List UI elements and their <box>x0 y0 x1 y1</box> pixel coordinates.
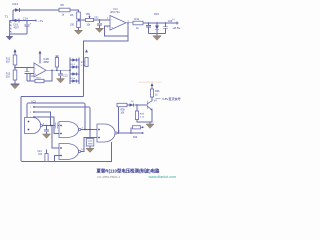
svg-text:C22: C22 <box>63 74 68 77</box>
gate G2 <box>59 122 81 138</box>
svg-text:(+): (+) <box>172 19 175 21</box>
zener D15 <box>155 23 159 34</box>
svg-text:C14: C14 <box>23 16 28 20</box>
wire G3 out up <box>81 138 97 152</box>
resistor R7 <box>77 21 81 28</box>
capacitor C05 <box>146 23 151 34</box>
ground <box>146 122 154 128</box>
svg-text:4007: 4007 <box>14 27 20 30</box>
svg-text:VR1: VR1 <box>86 13 91 16</box>
wire feedback <box>105 23 129 36</box>
svg-text:+8.5v: +8.5v <box>173 26 181 30</box>
label ~7v <box>35 20 37 22</box>
gate G4 <box>97 124 117 142</box>
wire bus E <box>34 117 61 134</box>
op-amp U2 <box>34 63 46 77</box>
wire emitter loop <box>136 104 138 106</box>
resistor R11 <box>133 21 143 25</box>
svg-text:D1.2: D1.2 <box>71 64 76 66</box>
svg-text:4558: 4558 <box>43 61 49 64</box>
wire <box>137 110 152 122</box>
diode D3 <box>70 72 79 75</box>
svg-text:D15: D15 <box>154 12 159 16</box>
svg-text:R20: R20 <box>133 137 138 139</box>
power +V <box>39 51 42 64</box>
wire G1 to G3 lower <box>52 126 61 149</box>
diode D14 <box>15 8 20 12</box>
wire output <box>126 22 133 24</box>
wire <box>70 10 79 12</box>
wire <box>10 33 28 35</box>
diode D01 <box>15 19 20 23</box>
transformer T1 secondary <box>10 21 12 35</box>
svg-text:330: 330 <box>70 24 75 27</box>
wire op1 down <box>84 23 129 97</box>
capacitor C06 <box>163 23 168 34</box>
reference box X1 <box>86 139 94 147</box>
op-amp U1 <box>110 16 126 31</box>
wire base <box>127 104 147 106</box>
wire bus B box edge <box>27 103 87 133</box>
gate G1 <box>25 118 43 134</box>
svg-text:51K: 51K <box>6 61 11 64</box>
capacitor C25 series <box>55 123 61 129</box>
wire <box>12 10 14 21</box>
resistor R58 <box>117 103 127 106</box>
svg-text:IC1: IC1 <box>114 7 119 11</box>
ground <box>75 28 83 35</box>
svg-text:R11: R11 <box>135 17 140 21</box>
ground <box>57 79 65 83</box>
resistor R20 <box>130 127 132 133</box>
wire output <box>46 69 70 71</box>
ground <box>96 28 104 32</box>
power +V <box>85 49 88 52</box>
svg-text:R58: R58 <box>121 110 126 112</box>
wire G4 out <box>117 132 142 134</box>
power +V <box>14 49 17 55</box>
wire <box>149 33 166 35</box>
ground <box>11 80 20 89</box>
svg-text:R5: R5 <box>61 3 65 7</box>
resistor R15 feedback <box>55 56 58 70</box>
resistor R12 <box>13 55 17 65</box>
capacitor C14 <box>25 21 32 35</box>
wire <box>10 20 37 22</box>
svg-text:-: - <box>111 18 112 22</box>
wire bus A <box>21 96 84 98</box>
wire G1 out <box>42 125 55 127</box>
label 3.8V output <box>156 97 161 99</box>
resistor R17 <box>85 58 88 67</box>
capacitor C21 <box>25 68 30 82</box>
capacitor C03 <box>97 20 102 28</box>
svg-text:IC2: IC2 <box>32 100 37 104</box>
ground <box>43 134 51 138</box>
svg-text:51K: 51K <box>6 76 11 79</box>
svg-text:C24: C24 <box>37 151 42 153</box>
svg-text:uPC741: uPC741 <box>110 10 120 14</box>
svg-text:C03: C03 <box>94 16 99 19</box>
svg-text:D14: D14 <box>13 2 19 6</box>
resistor R26 <box>150 89 153 97</box>
wire G2 out <box>81 129 97 131</box>
wire top rail <box>13 9 59 11</box>
svg-text:www.dianlut.com: www.dianlut.com <box>149 175 177 179</box>
resistor R13 <box>13 70 17 80</box>
svg-text:T1: T1 <box>5 15 9 19</box>
diode D4 <box>70 79 79 82</box>
wire <box>143 22 176 24</box>
resistor R6 <box>77 12 81 19</box>
svg-text:夏普R(110型电压检测(削波)电路: 夏普R(110型电压检测(削波)电路 <box>96 167 161 174</box>
wire <box>14 65 16 70</box>
feedback loop R14 <box>27 70 52 82</box>
capacitor C23 <box>44 126 49 135</box>
diode ladder rails <box>70 58 79 85</box>
svg-text:~7v: ~7v <box>38 19 44 23</box>
diode D2 <box>70 65 79 68</box>
ground <box>86 146 94 152</box>
trimmer VR1 <box>86 15 94 21</box>
wire bus C <box>34 107 90 139</box>
wire G3 lower in <box>55 156 62 162</box>
ground <box>6 34 13 40</box>
power +V <box>151 83 154 89</box>
diode D1 <box>70 58 79 61</box>
resistor R5 <box>59 8 70 12</box>
wire bus D <box>34 112 51 126</box>
svg-text:www.dianlut.com: www.dianlut.com <box>139 80 162 84</box>
svg-text:CN-3859-PB20-4: CN-3859-PB20-4 <box>97 175 120 179</box>
wire <box>94 19 111 21</box>
resistor R59 <box>135 111 138 120</box>
wire <box>151 97 153 101</box>
transistor Q1 <box>147 101 152 111</box>
terminal +8.5v <box>176 22 178 24</box>
diode D20 <box>130 103 134 106</box>
capacitor C22 <box>58 70 63 78</box>
gate G3 <box>59 144 81 160</box>
ground <box>153 34 161 41</box>
svg-text:D3.4: D3.4 <box>71 78 76 80</box>
wire tap <box>78 19 80 21</box>
capacitor C24 <box>45 150 48 162</box>
node junction <box>12 20 14 22</box>
wire G4 out up to R58 <box>118 107 120 134</box>
svg-text:3.8V直流信号: 3.8V直流信号 <box>162 96 181 101</box>
